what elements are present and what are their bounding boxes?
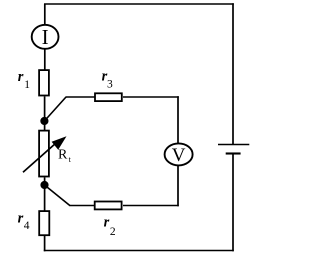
wire: diagonal from node B to r2 branch xyxy=(45,185,70,206)
resistor r4 xyxy=(39,211,49,235)
wire: right vertical rail upper (to battery +) xyxy=(232,3,234,144)
svg-text:3: 3 xyxy=(107,79,113,91)
svg-text:V: V xyxy=(172,145,186,166)
label Rt xyxy=(58,147,72,164)
node A (junction dot) xyxy=(40,117,48,125)
wire: ammeter to r1 xyxy=(44,49,46,70)
wire: node B to r4 xyxy=(44,177,46,211)
wire: r2 branch left segment xyxy=(69,205,94,207)
wire: r3 branch left segment xyxy=(66,96,95,98)
wire: r4 to bottom rail xyxy=(44,236,46,251)
svg-text:I: I xyxy=(42,25,49,49)
wire: diagonal from node A to r3 branch xyxy=(44,97,66,121)
wire: r2 branch right segment xyxy=(123,205,179,207)
ammeter U1 xyxy=(32,25,59,49)
wire: top-left vertical from top rail to ammeter xyxy=(44,4,46,26)
svg-text:r: r xyxy=(18,69,24,85)
resistor r3 xyxy=(95,93,122,101)
rheostat Rt (variable resistor) xyxy=(23,131,67,177)
voltmeter U2 xyxy=(165,143,193,166)
svg-text:r: r xyxy=(104,215,110,231)
svg-text:1: 1 xyxy=(24,79,30,91)
wire: r1 to Rt through node A xyxy=(44,96,46,130)
label r2 xyxy=(104,215,116,238)
battery BT1: short plate (-) xyxy=(226,152,241,154)
label r1 xyxy=(18,69,31,91)
battery BT1: long plate (+) xyxy=(218,144,249,146)
svg-text:t: t xyxy=(69,155,72,164)
node B (junction dot) xyxy=(40,181,48,189)
label r4 xyxy=(18,211,30,232)
wire: vertical down to voltmeter xyxy=(177,96,179,144)
wire: voltmeter down to r2 branch xyxy=(177,165,179,206)
resistor r2 xyxy=(95,202,122,210)
wire: top horizontal rail xyxy=(44,3,234,5)
label r3 xyxy=(102,69,113,91)
resistor r1 xyxy=(39,70,49,95)
wire: right vertical rail lower (battery - to bottom) xyxy=(232,154,234,252)
wire: bottom horizontal rail xyxy=(44,250,234,252)
wire: r3 branch right segment xyxy=(123,96,179,98)
svg-text:2: 2 xyxy=(110,226,116,238)
svg-text:R: R xyxy=(58,147,68,162)
svg-text:r: r xyxy=(18,211,24,227)
svg-text:4: 4 xyxy=(24,220,30,232)
